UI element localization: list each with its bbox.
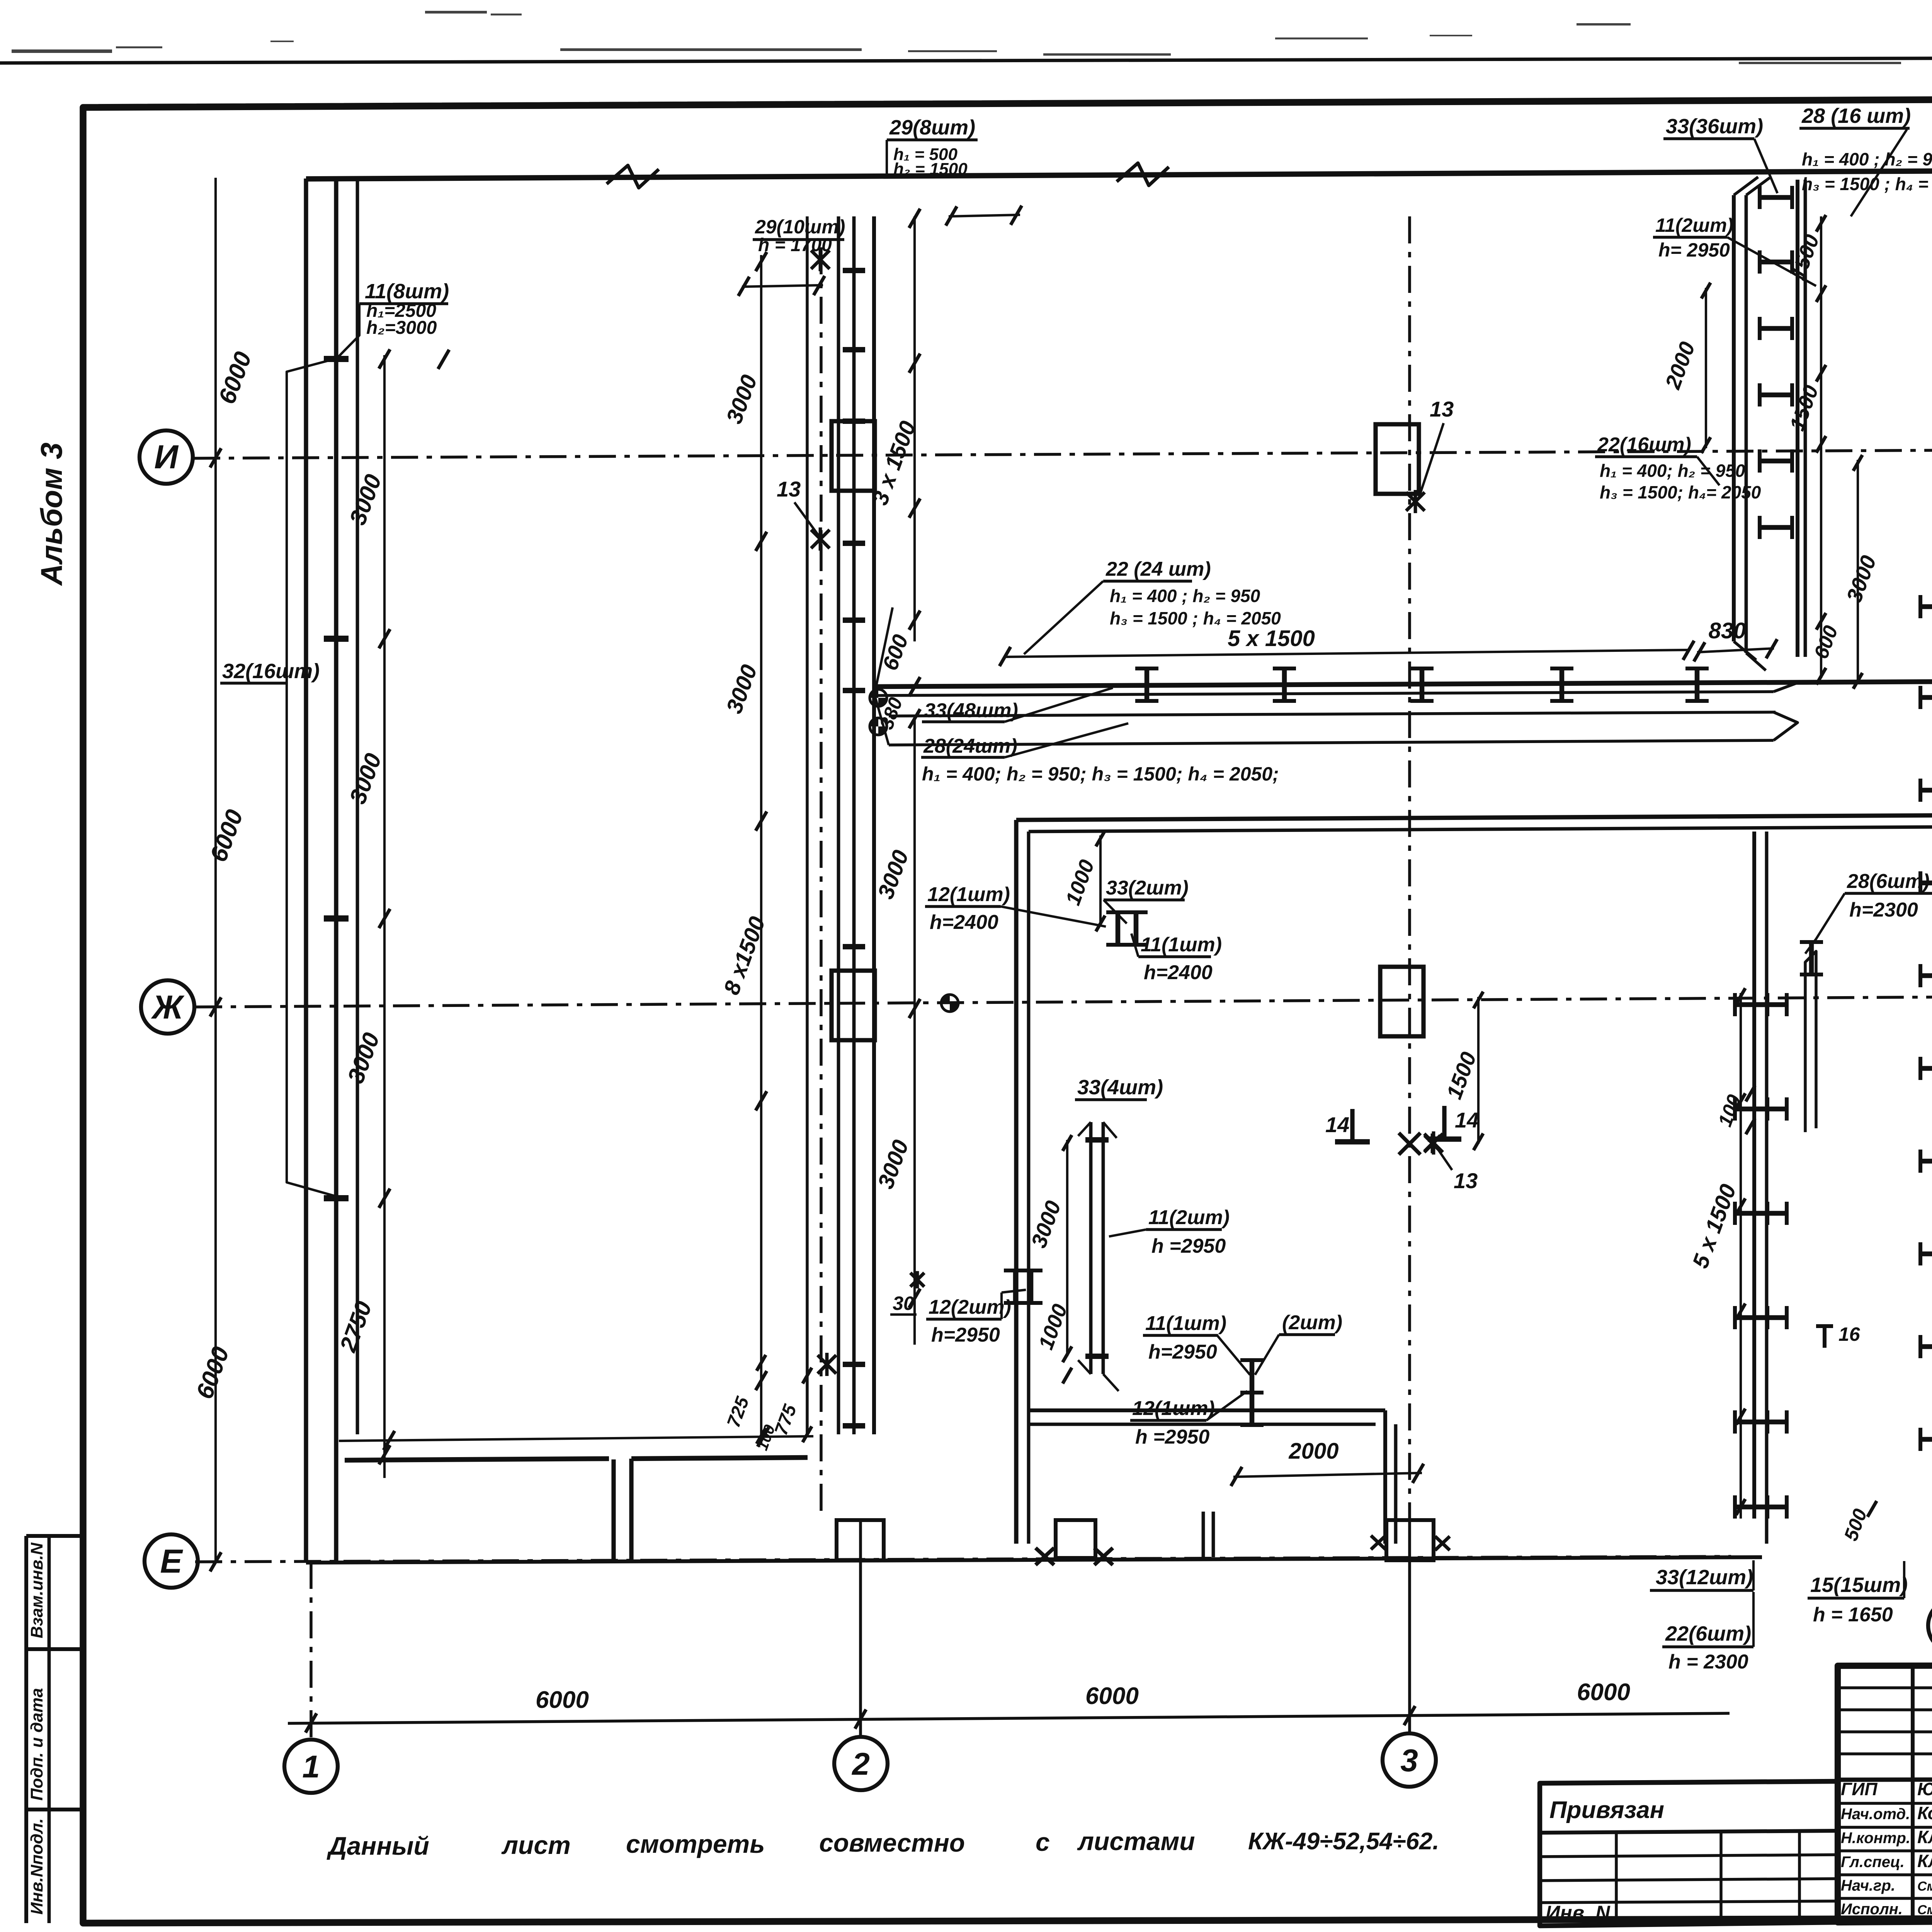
axis E horizontal dash-dot left <box>195 1556 1731 1562</box>
band wall second line <box>875 692 1774 696</box>
axis 2 vertical line to circle <box>859 1519 862 1738</box>
dim tick <box>1404 1706 1415 1725</box>
5x1500 dim line <box>1005 650 1689 657</box>
svg-text:830: 830 <box>1709 618 1746 643</box>
svg-text:Смольянинова: Смольянинова <box>1917 1879 1932 1894</box>
svg-text:12(1шт): 12(1шт) <box>1132 1397 1215 1420</box>
svg-text:Нач.гр.: Нач.гр. <box>1841 1877 1895 1894</box>
svg-text:h=2950: h=2950 <box>931 1324 1000 1346</box>
svg-text:33(12шт): 33(12шт) <box>1656 1566 1753 1589</box>
center room top wall line B <box>1029 827 1932 832</box>
top outer wall <box>306 168 1932 179</box>
title block outer border <box>1838 1665 1932 1922</box>
partition slant bottom <box>1078 1360 1091 1374</box>
svg-text:33(48шт): 33(48шт) <box>924 699 1018 722</box>
chain tick <box>379 349 390 369</box>
room inner wall bottom A <box>1029 1408 1385 1412</box>
svg-text:Н.контр.: Н.контр. <box>1841 1830 1910 1847</box>
bottom dimension line <box>288 1713 1730 1723</box>
axis circle I <box>139 430 193 484</box>
svg-text:Гл.спец.: Гл.спец. <box>1841 1854 1905 1871</box>
svg-text:Данный: Данный <box>327 1832 429 1860</box>
band wall lower line 1 <box>889 712 1776 716</box>
svg-text:11(2шт): 11(2шт) <box>1655 214 1733 236</box>
left outer wall face B <box>334 179 338 1562</box>
svg-text:22(16шт): 22(16шт) <box>1597 434 1691 456</box>
svg-text:28(24шт): 28(24шт) <box>923 735 1017 757</box>
sheet thin top edge <box>0 56 1932 63</box>
top wall break marks <box>607 165 659 188</box>
chain tick <box>756 1091 767 1111</box>
band wall main line <box>875 682 1932 687</box>
svg-text:2000: 2000 <box>1288 1439 1338 1464</box>
chain tick <box>909 209 920 228</box>
svg-text:Подп. и дата: Подп. и дата <box>27 1688 46 1801</box>
svg-text:32(16шт): 32(16шт) <box>222 660 320 683</box>
chain tick <box>909 611 920 630</box>
svg-text:6000: 6000 <box>536 1687 589 1713</box>
svg-text:13: 13 <box>777 477 801 501</box>
svg-text:КЖ-49÷52,54÷62.: КЖ-49÷52,54÷62. <box>1248 1828 1439 1855</box>
attribute column boxes bottom-left <box>24 1536 28 1923</box>
tick near 11(8sht) <box>438 350 449 369</box>
bottom-left door wall v A <box>611 1459 616 1562</box>
svg-text:33(36шт): 33(36шт) <box>1666 115 1763 138</box>
svg-text:Альбом 3: Альбом 3 <box>34 442 68 586</box>
svg-text:30: 30 <box>893 1293 914 1314</box>
svg-text:13: 13 <box>1430 397 1454 421</box>
svg-text:h =2950: h =2950 <box>1151 1235 1226 1257</box>
svg-text:Привязан: Привязан <box>1549 1797 1664 1823</box>
chain tick <box>756 252 767 271</box>
svg-text:h=2950: h=2950 <box>1148 1341 1217 1363</box>
column box axis3-I <box>1376 424 1419 494</box>
lower right wall pair A <box>1752 832 1756 1510</box>
svg-text:11(8шт): 11(8шт) <box>365 280 449 303</box>
partition slant top <box>1078 1122 1091 1136</box>
revision/signature table columns <box>1911 1666 1915 1922</box>
dim tick <box>210 448 221 468</box>
south wall line along E <box>306 1557 1762 1563</box>
svg-text:22(6шт): 22(6шт) <box>1665 1622 1751 1645</box>
title main horizontal divider <box>1838 1778 1932 1780</box>
bottom-left door wall v B <box>629 1459 633 1562</box>
axis2 wall plates <box>843 268 865 273</box>
axis4 wall plates <box>1920 604 1932 609</box>
8x1500 chain <box>760 255 762 1445</box>
svg-text:1: 1 <box>302 1749 320 1784</box>
svg-text:15(15шт): 15(15шт) <box>1810 1573 1908 1597</box>
left wall plates 11(8sht) <box>324 356 349 362</box>
svg-text:h= 2950: h= 2950 <box>1658 239 1730 261</box>
left dim chain 6000 vertical <box>214 178 217 1562</box>
3x1500 chain <box>913 216 916 641</box>
dim tick <box>210 997 221 1017</box>
privyazan box border <box>1540 1781 1838 1926</box>
svg-text:листами: листами <box>1077 1827 1195 1855</box>
svg-text:(2шт): (2шт) <box>1282 1311 1342 1334</box>
chain tick <box>756 811 767 831</box>
left outer wall face A <box>304 179 308 1562</box>
star near 30 <box>910 1273 924 1287</box>
svg-text:h=2400: h=2400 <box>930 911 998 934</box>
axis2 wall line <box>837 216 840 1434</box>
chain tick <box>379 629 390 648</box>
svg-text:смотреть: смотреть <box>626 1830 765 1858</box>
center room left wall B <box>1027 832 1031 1544</box>
svg-text:Взам.инв.N: Взам.инв.N <box>27 1542 46 1638</box>
privyazan header bottom <box>1540 1831 1838 1833</box>
plates on room left wall <box>1013 1270 1018 1303</box>
chain tick <box>379 909 390 928</box>
band wall lower line 2 <box>889 740 1774 745</box>
chain tick <box>756 532 767 551</box>
wall 28(16) line A <box>1796 180 1799 657</box>
svg-text:h = 1650: h = 1650 <box>1813 1604 1893 1626</box>
plates at top junction <box>1116 912 1121 945</box>
svg-text:16: 16 <box>1838 1323 1861 1345</box>
revision table rows <box>1838 1686 1932 1689</box>
axis 3 vertical line to circle <box>1408 1519 1411 1733</box>
svg-text:h = 1700: h = 1700 <box>758 235 832 255</box>
wall stub near 28(6) <box>1805 951 1816 1132</box>
svg-text:Климов: Климов <box>1917 1851 1932 1871</box>
plates on 28(16) wall <box>1760 195 1792 200</box>
column box axis3-Zh <box>1380 967 1423 1036</box>
chain tick <box>756 1371 767 1390</box>
svg-text:h₁ = 400 ; h₂ = 950: h₁ = 400 ; h₂ = 950 <box>1802 149 1932 169</box>
wall 33(36) line B <box>1745 195 1748 653</box>
privyazan columns <box>1615 1833 1618 1924</box>
svg-text:h = 2300: h = 2300 <box>1668 1651 1748 1673</box>
wall 28(16) line B <box>1804 180 1807 657</box>
bottom-left dim line <box>339 1436 813 1441</box>
svg-text:h₁ = 400; h₂ = 950: h₁ = 400; h₂ = 950 <box>1600 461 1745 481</box>
svg-text:h=2400: h=2400 <box>1144 961 1213 984</box>
svg-text:h₃ = 1500; h₄= 2050: h₃ = 1500; h₄= 2050 <box>1600 482 1761 502</box>
svg-text:13: 13 <box>1454 1168 1478 1193</box>
svg-text:11(1шт): 11(1шт) <box>1145 1312 1226 1335</box>
privyazan rows <box>1540 1855 1838 1857</box>
svg-text:12(1шт): 12(1шт) <box>927 883 1010 906</box>
chain tick <box>909 498 920 518</box>
svg-text:И: И <box>154 439 179 476</box>
svg-text:5 х 1500: 5 х 1500 <box>1228 626 1315 651</box>
svg-text:Е: Е <box>160 1543 183 1580</box>
29(8sht) dim ticks <box>949 215 1020 216</box>
center room left wall A <box>1014 820 1018 1544</box>
svg-text:28(6шт): 28(6шт) <box>1847 870 1930 893</box>
partition 33(4sht) line A <box>1089 1122 1093 1374</box>
column stub axis3-E <box>1386 1520 1434 1560</box>
chain tick <box>909 354 920 373</box>
chain ticks 600/380 <box>909 677 920 696</box>
door jamb stub bottom room <box>1202 1512 1205 1557</box>
column box axis2-Zh <box>832 971 875 1040</box>
wall 33(36) bottom slants <box>1734 641 1756 660</box>
svg-text:14: 14 <box>1455 1108 1479 1132</box>
svg-text:Нач.отд.: Нач.отд. <box>1841 1806 1910 1823</box>
room inner wall vertical B <box>1394 1424 1398 1544</box>
axis2 wall plates line <box>852 216 856 1434</box>
band left slants <box>875 607 893 693</box>
svg-text:h₂=3000: h₂=3000 <box>366 318 437 338</box>
bottom-left wall segment B <box>631 1458 808 1459</box>
svg-text:h =2950: h =2950 <box>1135 1426 1209 1448</box>
axis circle E <box>145 1534 198 1588</box>
svg-text:Смольянинова: Смольянинова <box>1917 1903 1932 1917</box>
room inner wall bottom B <box>1029 1423 1376 1426</box>
signature rows <box>1838 1802 1932 1805</box>
svg-text:h₁ = 400 ; h₂ = 950: h₁ = 400 ; h₂ = 950 <box>1110 586 1260 606</box>
svg-text:Инв. N: Инв. N <box>1546 1902 1611 1924</box>
axis circle 3 <box>1383 1733 1436 1787</box>
svg-text:с: с <box>1036 1828 1050 1856</box>
svg-text:14: 14 <box>1325 1112 1349 1137</box>
12(2sht) vertical leader <box>1000 1293 1003 1319</box>
svg-text:33(4шт): 33(4шт) <box>1077 1076 1163 1099</box>
svg-text:лист: лист <box>501 1831 571 1859</box>
mid-span stub on E wall <box>1056 1520 1095 1558</box>
svg-text:Юдин: Юдин <box>1917 1779 1932 1799</box>
svg-text:Инв.Nподл.: Инв.Nподл. <box>27 1818 46 1915</box>
wall 33(36) line A <box>1732 195 1736 641</box>
svg-text:совместно: совместно <box>819 1828 965 1857</box>
svg-text:Климов: Климов <box>1917 1827 1932 1847</box>
star mark 13 center <box>1425 1136 1440 1151</box>
axis I horizontal dash-dot <box>193 447 1932 458</box>
svg-text:3: 3 <box>1400 1743 1418 1778</box>
band right end slants <box>1774 682 1801 692</box>
partition plates <box>1085 1137 1109 1143</box>
band plates <box>1145 668 1150 701</box>
axis 1 vertical dash-dot <box>310 1562 313 1740</box>
axis2 partition thin line left <box>806 216 809 1434</box>
column stub axis2-E <box>837 1520 884 1560</box>
svg-text:22 (24 шт): 22 (24 шт) <box>1105 558 1211 580</box>
svg-text:12(2шт): 12(2шт) <box>929 1296 1011 1318</box>
29(10sht) dim line <box>742 285 823 287</box>
svg-text:2: 2 <box>851 1747 870 1782</box>
svg-text:Ж: Ж <box>151 989 185 1026</box>
svg-text:29(8шт): 29(8шт) <box>889 116 975 139</box>
scan noise top edge <box>12 49 112 53</box>
bracket 32(16sht) <box>287 359 335 1196</box>
svg-text:11(2шт): 11(2шт) <box>1148 1206 1230 1229</box>
left wall inner line <box>356 178 359 1434</box>
x marks at axis3 stub <box>1371 1536 1386 1549</box>
svg-text:h₃ = 1500 ; h₄ = 2050: h₃ = 1500 ; h₄ = 2050 <box>1110 608 1281 628</box>
survey mark on Zh axis <box>941 995 958 1012</box>
bottom-left wall segment A <box>345 1459 609 1460</box>
svg-text:h₂ = 1500: h₂ = 1500 <box>893 160 968 179</box>
3000 chain left <box>383 355 386 1478</box>
wall 33(36) top slants <box>1734 177 1758 195</box>
3000 chain below axis2 <box>913 719 916 1345</box>
lower right wall pair B <box>1765 832 1769 1544</box>
5x1500 chain lower right <box>1740 993 1742 1519</box>
svg-text:Козлов: Козлов <box>1917 1803 1932 1823</box>
svg-text:h₁ = 400; h₂ = 950; h₃ = 15: h₁ = 400; h₂ = 950; h₃ = 1500; h₄ = 2050… <box>922 763 1279 785</box>
svg-text:h=2300: h=2300 <box>1849 899 1918 921</box>
axis circle 4 <box>1928 1599 1932 1652</box>
leaders to plate junction <box>1217 1335 1250 1375</box>
axis circle 2 <box>834 1737 888 1790</box>
axis circle 1 <box>284 1740 338 1793</box>
axis2 wall right face <box>872 216 876 1434</box>
svg-text:28 (16 шт): 28 (16 шт) <box>1801 104 1911 128</box>
dim tick <box>210 1552 221 1571</box>
axis Zh horizontal dash-dot <box>195 994 1932 1007</box>
svg-text:33(2шт): 33(2шт) <box>1106 877 1189 899</box>
svg-text:Исполн.: Исполн. <box>1841 1901 1903 1918</box>
svg-text:6000: 6000 <box>1085 1683 1139 1709</box>
axis 2 internal dash-dot <box>820 247 823 1519</box>
dim tick <box>306 1713 317 1733</box>
chain dims right top <box>1820 216 1822 678</box>
column box axis2-I <box>832 421 875 491</box>
svg-text:29(10шт): 29(10шт) <box>755 216 845 238</box>
svg-text:6000: 6000 <box>1577 1679 1630 1706</box>
svg-text:11(1шт): 11(1шт) <box>1141 934 1222 956</box>
cross mark x center <box>1399 1133 1420 1155</box>
room inner wall vertical A <box>1383 1410 1387 1544</box>
partition 33(4sht) line B <box>1102 1122 1105 1374</box>
survey marks near band <box>870 689 887 706</box>
svg-text:ГИП: ГИП <box>1841 1779 1878 1799</box>
star marks axis2 <box>811 250 830 269</box>
axis circle Zh <box>141 980 194 1034</box>
center room top wall line A <box>1016 815 1932 820</box>
dim tick <box>855 1709 866 1729</box>
chain tick <box>379 1445 390 1464</box>
x marks door gap E wall <box>1036 1548 1054 1565</box>
plates lower right wall <box>1735 1002 1767 1007</box>
chain tick <box>379 1189 390 1208</box>
axis 3 internal dash-dot <box>1408 216 1411 1519</box>
